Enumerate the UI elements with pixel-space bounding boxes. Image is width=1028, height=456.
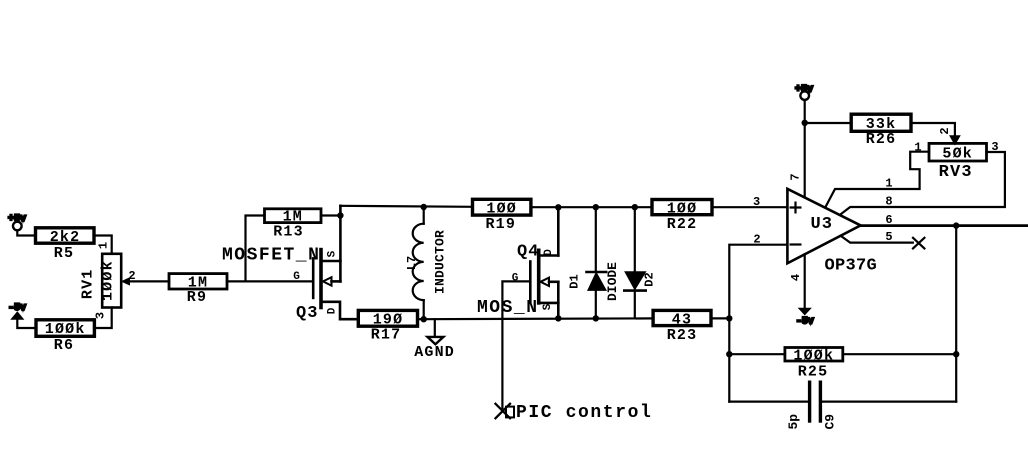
source vertical to rail	[339, 206, 342, 282]
svg-text:PIC control: PIC control	[516, 403, 652, 423]
svg-text:AGND: AGND	[414, 344, 455, 361]
svg-text:R22: R22	[667, 216, 698, 233]
drain tab	[540, 254, 558, 257]
resistor R22	[652, 200, 712, 234]
resistor R19	[473, 199, 531, 233]
node D2 top	[632, 204, 638, 210]
wire RV1 pin3 to R6	[94, 308, 111, 329]
transistor Q4	[502, 207, 558, 408]
wire to R26	[805, 122, 852, 124]
power -5V right	[796, 308, 814, 327]
diode D1	[568, 207, 607, 318]
svg-text:4: 4	[789, 274, 803, 281]
svg-text:R23: R23	[667, 327, 698, 344]
node inductor bottom	[421, 316, 427, 322]
wire R25 right	[843, 353, 956, 355]
node Q4 drain rail	[555, 204, 561, 210]
node D1 top	[593, 204, 599, 210]
svg-text:D: D	[543, 249, 555, 256]
svg-text:1ØØk: 1ØØk	[45, 321, 86, 338]
node D1 bottom	[593, 315, 599, 321]
node inductor top	[421, 204, 427, 210]
power +5V right	[795, 85, 813, 123]
no-connect X pin 5	[913, 238, 924, 249]
node Q4 source rail	[555, 315, 561, 321]
resistor R9	[169, 274, 227, 307]
svg-text:D2: D2	[643, 272, 657, 286]
resistor R23	[653, 310, 711, 343]
node inverting input	[726, 315, 732, 321]
svg-text:C9: C9	[822, 414, 837, 430]
svg-text:+5v: +5v	[8, 214, 26, 225]
svg-text:S: S	[542, 303, 554, 310]
drain tab	[323, 302, 359, 319]
node output feedback	[953, 222, 959, 228]
gate bar	[312, 258, 315, 298]
wire node to op-amp pin 2	[729, 245, 787, 402]
svg-text:L7: L7	[405, 256, 419, 270]
svg-text:R6: R6	[54, 337, 74, 354]
pin 4 wire	[804, 254, 806, 309]
gate bar	[529, 262, 532, 303]
pin 7 wire	[804, 123, 806, 198]
svg-text:43: 43	[672, 311, 692, 328]
svg-text:2k2: 2k2	[50, 229, 81, 246]
svg-text:G: G	[512, 273, 519, 285]
wire R5 to RV1 pin1	[94, 236, 112, 254]
body arrow	[323, 277, 332, 285]
top rail	[340, 206, 472, 207]
op-amp U3	[787, 189, 877, 275]
resistor R5	[36, 228, 95, 262]
source bracket	[540, 282, 558, 303]
resistor R6	[36, 320, 94, 354]
body arrow	[541, 278, 550, 286]
svg-text:D: D	[327, 307, 339, 314]
wire junction R13 drop	[246, 216, 265, 282]
node PIC control	[496, 403, 653, 423]
svg-text:-5v: -5v	[796, 317, 814, 328]
svg-text:R17: R17	[371, 327, 402, 344]
pin 5 wire	[841, 236, 913, 243]
power -5V left	[8, 303, 36, 328]
potentiometer RV1	[80, 254, 122, 308]
svg-text:1: 1	[914, 141, 921, 155]
svg-text:1ØØ: 1ØØ	[486, 200, 517, 217]
svg-text:2: 2	[938, 127, 952, 134]
svg-text:S: S	[327, 250, 339, 257]
resistor R25	[785, 347, 843, 380]
pin 1 wire	[826, 152, 929, 206]
svg-text:G: G	[293, 271, 300, 283]
svg-text:1ØØk: 1ØØk	[100, 260, 117, 301]
resistor R13	[265, 209, 322, 241]
svg-text:1ØØk: 1ØØk	[793, 347, 834, 364]
wire wiper to R9	[128, 280, 169, 282]
wire R23 to node	[711, 317, 729, 319]
wire R22 to op-amp pin 3	[712, 206, 787, 208]
channel bar	[319, 250, 323, 308]
diode D2	[624, 207, 656, 318]
inductor L7	[405, 207, 448, 319]
svg-text:RV3: RV3	[939, 163, 973, 182]
svg-text:U3: U3	[811, 215, 833, 234]
svg-text:RV1: RV1	[80, 268, 97, 299]
svg-text:5p: 5p	[786, 414, 801, 430]
wire R26 to RV3 wiper	[911, 123, 955, 137]
svg-text:3: 3	[753, 195, 760, 209]
capacitor C9	[729, 382, 956, 429]
power +5V left	[8, 214, 36, 236]
ground AGND	[414, 319, 455, 361]
svg-text:R9: R9	[187, 289, 207, 306]
resistor R26	[851, 114, 911, 148]
svg-text:1: 1	[97, 242, 111, 249]
wire R9 to Q3 gate	[227, 280, 313, 282]
svg-text:D1: D1	[568, 274, 582, 288]
node R13/Q3 source junction	[337, 212, 343, 218]
svg-text:1: 1	[885, 177, 892, 191]
svg-text:MOSFET_N: MOSFET_N	[222, 246, 320, 266]
svg-text:R13: R13	[273, 224, 304, 241]
svg-text:3: 3	[94, 312, 108, 319]
node R25 left	[726, 351, 732, 357]
RV3 wiper arrow	[950, 136, 960, 145]
wire R13 to node	[321, 214, 340, 216]
svg-text:R26: R26	[866, 131, 897, 148]
svg-text:R5: R5	[54, 245, 74, 262]
resistor R17	[358, 310, 417, 343]
svg-text:6: 6	[885, 213, 892, 227]
potentiometer RV3	[929, 143, 987, 181]
svg-text:DIODE: DIODE	[605, 262, 620, 301]
gate wire	[502, 281, 530, 408]
wire output down	[955, 226, 957, 402]
svg-text:5Øk: 5Øk	[942, 145, 973, 162]
node R25 right	[953, 351, 959, 357]
svg-text:3: 3	[991, 140, 998, 154]
pin 6 output wire	[861, 224, 1028, 227]
bottom rail	[424, 317, 653, 320]
svg-text:R19: R19	[485, 216, 516, 233]
transistor Q3	[293, 206, 358, 323]
svg-text:R25: R25	[798, 363, 829, 380]
source tab	[323, 260, 341, 263]
svg-text:INDUCTOR: INDUCTOR	[433, 230, 448, 294]
svg-text:7: 7	[789, 173, 803, 180]
svg-text:Q4: Q4	[517, 242, 539, 261]
node +5V / R26 branch	[802, 120, 808, 126]
svg-text:2: 2	[753, 232, 760, 246]
svg-text:5: 5	[885, 230, 892, 244]
svg-text:OP37G: OP37G	[825, 256, 878, 275]
wire R17 to inductor bottom	[418, 318, 424, 320]
pin 8 wire	[841, 152, 1005, 214]
RV1 wiper arrow	[122, 278, 130, 285]
wire R25 left	[729, 353, 785, 355]
svg-text:+5v: +5v	[795, 85, 813, 96]
svg-text:8: 8	[885, 195, 892, 209]
svg-text:Q3: Q3	[296, 304, 318, 323]
svg-text:1ØØ: 1ØØ	[667, 200, 698, 217]
channel bar	[537, 250, 541, 303]
